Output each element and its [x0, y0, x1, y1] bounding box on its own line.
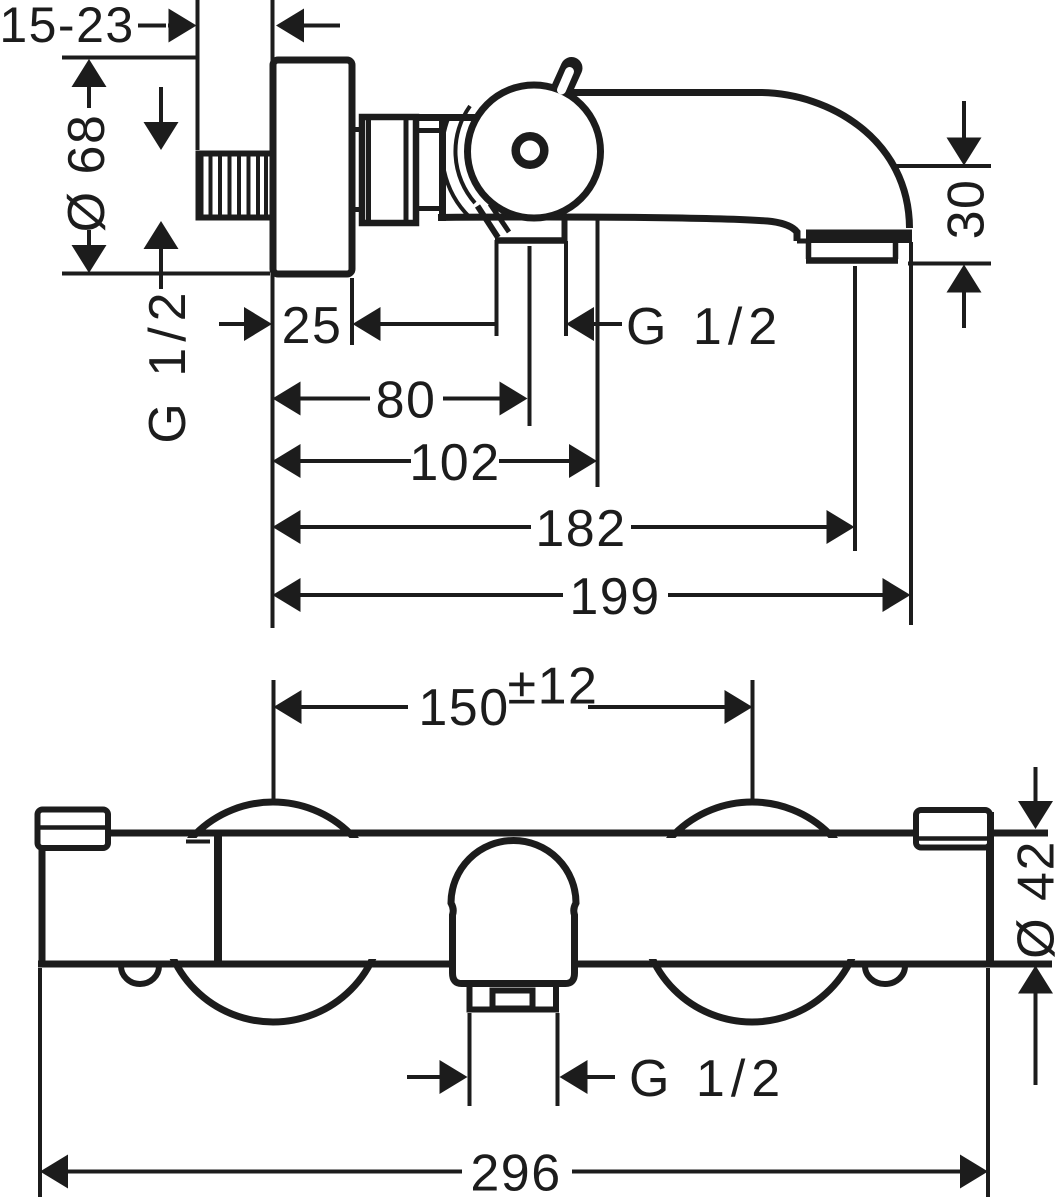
dim 199 row — [273, 578, 911, 612]
dim 25 row — [219, 278, 495, 345]
extension line 80 — [528, 246, 532, 426]
extension line collar left — [495, 240, 499, 336]
dim Ø42 — [1018, 767, 1053, 1085]
svg-text:102: 102 — [409, 434, 500, 492]
svg-text:15-23: 15-23 — [0, 0, 135, 53]
extension line 199 spout tip — [909, 242, 913, 625]
bar top edge — [108, 830, 1048, 837]
handle lever (black outer) — [557, 68, 572, 100]
handle hub — [516, 136, 545, 165]
valve body — [416, 106, 482, 221]
left block left edge — [39, 847, 46, 963]
dim 182 row — [273, 510, 855, 544]
outlet nipple box — [493, 991, 533, 1009]
threaded nipple G1/2 — [196, 151, 270, 221]
wall reference line — [196, 0, 200, 150]
small flag line — [186, 840, 210, 844]
right check valve nub — [865, 966, 905, 984]
handle circle — [468, 85, 601, 218]
dim 296 — [40, 968, 988, 1197]
dim 15-23 — [138, 9, 340, 43]
left joint — [214, 831, 222, 964]
extension line G1/2 spout inlet — [564, 241, 568, 336]
svg-text:182: 182 — [535, 500, 626, 558]
union nut — [362, 114, 416, 226]
left pillar circle — [163, 802, 383, 1022]
svg-text:25: 25 — [282, 297, 343, 355]
dim Ø68 — [62, 58, 270, 274]
svg-text:Ø 68: Ø 68 — [58, 114, 116, 233]
left cap (wall escutcheon) — [38, 810, 109, 849]
svg-text:G 1/2: G 1/2 — [629, 1050, 786, 1108]
left check valve nub — [121, 966, 159, 984]
outlet flange — [797, 230, 912, 261]
dim G1/2 bottom — [407, 1013, 615, 1106]
extension line 182 outlet center — [853, 266, 857, 551]
svg-text:±12: ±12 — [508, 658, 599, 716]
dim 30 — [896, 101, 991, 328]
right pillar circle — [642, 802, 862, 1022]
svg-text:G 1/2: G 1/2 — [626, 298, 783, 356]
handle lever white core — [562, 72, 570, 91]
escutcheon face reference line — [271, 0, 275, 628]
right cap — [916, 810, 990, 848]
dim 150±12 — [274, 680, 753, 800]
dim 80 row — [273, 382, 528, 416]
bar white mask — [38, 838, 988, 959]
dim G 1/2 top row — [566, 307, 622, 341]
svg-text:80: 80 — [376, 372, 437, 430]
collar under handle — [478, 204, 566, 241]
svg-text:G 1/2: G 1/2 — [139, 286, 197, 443]
svg-text:30: 30 — [938, 179, 996, 240]
svg-text:199: 199 — [569, 568, 660, 626]
pipe nut to valve body — [414, 128, 446, 133]
escutcheon (wall plate) — [273, 60, 352, 274]
extension line 102 — [596, 215, 600, 487]
svg-text:296: 296 — [470, 1145, 561, 1200]
bar bottom edge — [38, 961, 1052, 968]
spout bottom edge — [438, 217, 797, 241]
svg-text:150: 150 — [418, 679, 509, 737]
svg-text:Ø 42: Ø 42 — [1008, 840, 1060, 959]
right bar end — [986, 812, 994, 963]
dim G1/2 nipple — [144, 87, 179, 289]
dim 102 row — [273, 444, 598, 478]
center dome (cartridge) — [451, 841, 576, 984]
outlet block under dome — [470, 984, 557, 1010]
spout top edge — [560, 93, 910, 229]
pipe escutcheon to nut — [352, 127, 362, 132]
